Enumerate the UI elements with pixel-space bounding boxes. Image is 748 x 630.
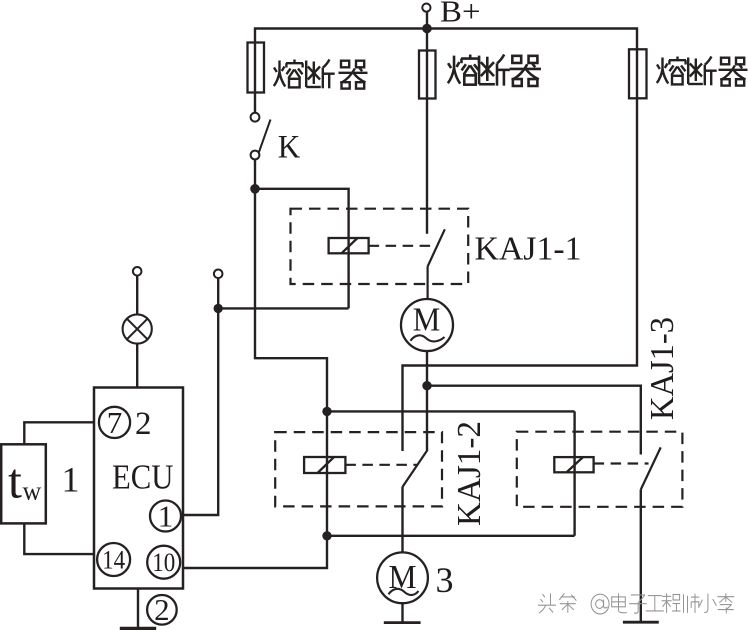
svg-text:3: 3	[436, 560, 454, 600]
ECU pin 1	[150, 501, 181, 532]
svg-text:KAJ1-3: KAJ1-3	[644, 317, 681, 420]
KAJ1-2 coil-contact link	[345, 464, 417, 466]
ECU box	[94, 388, 183, 589]
terminal B+	[422, 4, 430, 12]
wire switch branch down to KAJ1-2 coil feed	[255, 189, 327, 412]
wire coil bottoms link y536	[327, 535, 575, 537]
svg-text:ECU: ECU	[112, 458, 174, 497]
KAJ1-3 dashed box	[517, 432, 683, 507]
tw sensor box	[1, 444, 46, 523]
fuse F2	[419, 51, 436, 99]
motor M1	[401, 299, 453, 351]
junction lamp branch node	[214, 304, 223, 313]
wire ECU pin2 to ground	[137, 589, 139, 629]
svg-text:2: 2	[154, 592, 170, 627]
switch K blade	[259, 120, 271, 153]
KAJ1-2 dashed box	[275, 432, 442, 506]
wire junction to KAJ1-3 fixed contact	[427, 386, 641, 455]
junction below switch K	[250, 184, 260, 194]
ground KAJ1-3	[623, 621, 659, 624]
svg-text:2: 2	[135, 406, 152, 442]
wire junction K to KAJ1-1 coil feed	[255, 189, 349, 309]
svg-text:1: 1	[158, 499, 174, 534]
KAJ1-1 contact blade	[428, 229, 445, 299]
wire KAJ1-2 blade bottom to motor3	[401, 487, 403, 553]
junction B+	[422, 24, 432, 34]
junction coil bottoms	[322, 531, 331, 540]
KAJ1-2 contact blade	[403, 450, 428, 487]
wire motor3 to ground	[401, 603, 403, 622]
ECU pin 7	[99, 407, 130, 438]
wire switch to junction K	[254, 159, 256, 189]
wire fuse3 drop	[403, 29, 638, 452]
KAJ1-1 dashed box	[291, 209, 469, 284]
svg-text:7: 7	[107, 405, 123, 440]
wire tw box top to ECU pin 7	[24, 422, 100, 444]
wire motor1 to junction and KAJ1-2 contact	[426, 351, 428, 450]
wire power bus	[254, 27, 638, 29]
label fuse2 (CJK)	[448, 55, 541, 86]
junction KAJ1-2 coil feed	[322, 407, 331, 416]
label fuse1 (CJK)	[274, 60, 368, 89]
switch K bottom terminal	[251, 151, 260, 160]
wire B+ drop to fuse2 top	[426, 12, 428, 51]
ground motor3	[384, 621, 421, 624]
svg-text:14: 14	[102, 546, 125, 575]
KAJ1-3 coil	[554, 457, 593, 472]
wire tw box bottom to ECU pin 14	[24, 523, 97, 554]
svg-text:M: M	[389, 559, 417, 596]
fuse F1	[248, 43, 265, 93]
svg-text:B+: B+	[440, 0, 481, 29]
KAJ1-3 coil-contact link	[594, 462, 649, 464]
ECU pin 14	[97, 543, 130, 576]
ECU pin 2	[147, 595, 177, 625]
junction motor1 bottom	[422, 381, 431, 390]
wire KAJ1-3 coil feed vertical	[573, 411, 575, 535]
ECU pin 10	[147, 546, 180, 579]
wire lamp terminal to lamp	[136, 275, 138, 314]
lamp	[123, 314, 152, 343]
KAJ1-1 coil-contact link	[369, 245, 434, 247]
label fuse3 (CJK)	[657, 57, 748, 86]
wire KAJ1-2 coil feed through coil to pin 10	[181, 411, 327, 568]
motor M3	[377, 552, 428, 603]
KAJ1-2 coil	[304, 457, 345, 473]
KAJ1-3 contact blade	[641, 447, 661, 489]
wire bus to fuse1 and switch	[254, 29, 256, 114]
wire terminal 2 drop	[217, 278, 219, 309]
svg-text:KAJ1-1: KAJ1-1	[475, 231, 582, 268]
svg-text:K: K	[278, 130, 301, 166]
terminal pin1 branch	[214, 270, 223, 279]
svg-text:KAJ1-2: KAJ1-2	[451, 421, 488, 526]
wire coil feeds link y411	[327, 410, 575, 412]
svg-text:10: 10	[152, 548, 175, 577]
svg-text:M: M	[413, 302, 441, 339]
svg-text:t: t	[8, 453, 22, 509]
ground ECU	[120, 627, 156, 630]
svg-text:w: w	[23, 477, 42, 506]
svg-text:1: 1	[62, 460, 80, 500]
terminal lamp branch	[133, 267, 142, 276]
wire KAJ1-3 blade to ground	[640, 490, 642, 622]
KAJ1-1 coil	[329, 238, 369, 253]
wire KAJ1-1 coil bottom to node	[218, 307, 348, 309]
JUNCTION DOTS	[214, 24, 432, 541]
wire node down to ECU pin 1	[181, 308, 218, 515]
watermark	[538, 593, 734, 614]
switch K top terminal	[251, 113, 260, 122]
wire fuse2 through to KAJ1-1 fixed contact	[426, 50, 428, 234]
fuse F3	[629, 49, 647, 98]
wire lamp to ECU top	[136, 343, 138, 387]
